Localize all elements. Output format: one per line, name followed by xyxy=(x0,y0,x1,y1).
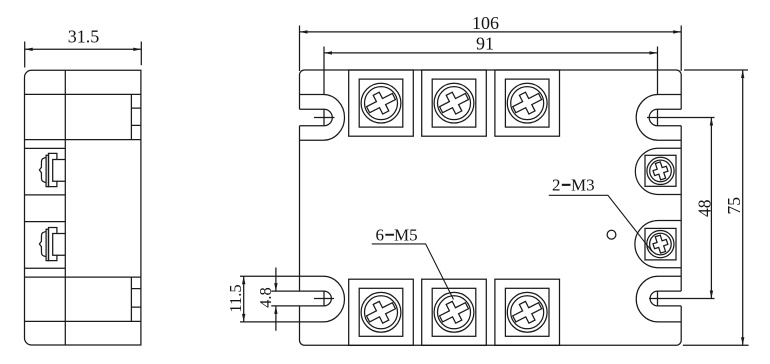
svg-text:75: 75 xyxy=(724,197,744,215)
terminal clip 1 (side view) xyxy=(39,153,65,186)
side view body outline xyxy=(25,70,141,345)
dimension 31.5 xyxy=(25,27,142,68)
label 6-M5 with leader xyxy=(372,226,454,300)
M3 screw B head xyxy=(647,231,674,258)
label 2-M3 with leader xyxy=(549,176,652,252)
front view body outline with slot gaps xyxy=(300,70,682,345)
screw terminal U1 top-left xyxy=(349,70,414,136)
side view horizontal line y139 xyxy=(25,139,141,141)
mounting slot top-right xyxy=(636,95,714,141)
screw terminal U2 top-middle xyxy=(422,70,487,136)
terminal clip 2 (side view) xyxy=(39,227,65,260)
side view bottom inset column xyxy=(131,277,141,321)
side view horizontal line y94 xyxy=(25,93,141,95)
svg-text:4.8: 4.8 xyxy=(256,287,275,308)
side view horizontal line y321 xyxy=(25,320,141,322)
svg-text:M5: M5 xyxy=(394,226,418,245)
dimension 91 xyxy=(324,34,658,95)
svg-text:11.5: 11.5 xyxy=(226,284,245,312)
M3 screw A head xyxy=(647,157,674,184)
screw terminal U3 top-right xyxy=(495,70,560,136)
dimension 48 xyxy=(694,118,714,299)
svg-text:48: 48 xyxy=(694,199,714,217)
dimension 11.5 xyxy=(226,276,300,322)
side view left-part line y268 xyxy=(25,267,66,269)
screw terminal U6 bottom-right xyxy=(495,279,560,345)
side view horizontal line y277 xyxy=(25,276,141,278)
svg-text:2: 2 xyxy=(552,176,561,195)
M3 screw A housing xyxy=(635,148,681,194)
svg-text:6: 6 xyxy=(376,226,385,245)
mounting slot bottom-right xyxy=(636,276,714,322)
side view top inset column xyxy=(131,94,141,139)
dimension 75 xyxy=(683,70,749,345)
side view left-part line y148 xyxy=(25,147,66,149)
side view left-part line y194 xyxy=(25,194,66,196)
mounting slot bottom-left xyxy=(300,276,345,322)
svg-text:91: 91 xyxy=(476,34,494,54)
M3 screw B housing xyxy=(635,221,681,268)
screw terminal U5 bottom-middle xyxy=(422,279,487,345)
M3 screw A square xyxy=(645,155,676,186)
screw terminal U4 bottom-left xyxy=(349,279,414,345)
side view left-part line y221 xyxy=(25,221,66,223)
side view vertical divider xyxy=(64,70,66,345)
svg-text:M3: M3 xyxy=(571,176,595,195)
mounting slot top-left xyxy=(300,95,345,141)
LED indicator xyxy=(607,230,616,239)
dimension 4.8 xyxy=(256,268,299,331)
svg-text:106: 106 xyxy=(472,13,499,33)
M3 screw B square xyxy=(645,228,676,260)
svg-text:31.5: 31.5 xyxy=(68,27,100,47)
dimension 106 xyxy=(300,13,682,71)
